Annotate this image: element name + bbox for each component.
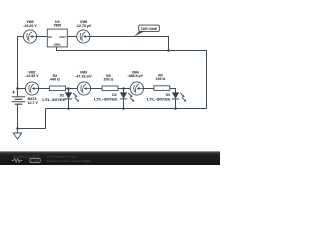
voltmeter VM2 [25,70,39,95]
svg-text:7805: 7805 [53,23,61,27]
voltmeter VM5 [23,20,37,43]
wire D2 risers [68,89,70,109]
annotation ZUR CAM [134,25,159,36]
wire VM5 to U3 IN [37,36,48,38]
wire VM2 to R2 [39,88,50,90]
svg-text:LAB: LAB [31,159,39,163]
node D4 cathode rail junction [174,107,177,110]
wire D4 riser [175,99,177,109]
voltmeter VM6 [76,20,92,43]
wire LED cathode rail [46,108,207,110]
wire U3 GND run right and down right edge [57,47,207,109]
watermark bar [0,151,220,165]
svg-text:440 Ω: 440 Ω [50,78,60,82]
svg-text:-10.20 V: -10.20 V [23,24,37,28]
svg-text:-12.75 µV: -12.75 µV [76,24,92,28]
node battery- / ground junction [16,127,19,130]
svg-text:GND: GND [54,43,62,47]
svg-text:LTL-307EE: LTL-307EE [147,97,171,101]
wire D3 risers [123,89,125,109]
wire rail to ground junction [18,109,46,129]
svg-text:LTL-307EE: LTL-307EE [42,98,66,102]
node R3/D3 junction [122,87,125,90]
svg-text:-12.63 V: -12.63 V [25,74,39,78]
resistor R2 [49,74,65,91]
wire VM6 right then down to GND net [90,37,169,51]
wire VM4 to R4 [143,88,154,90]
svg-text:12.7 V: 12.7 V [28,101,39,105]
node battery+ / VM2 junction [16,87,19,90]
voltmeter VM3 [75,71,92,96]
svg-text:LTL-307EE: LTL-307EE [94,97,118,101]
LED D2 [42,92,79,102]
svg-text:100 Ω: 100 Ω [156,77,166,81]
wire R2 to VM3 [66,88,78,90]
node R2/D2 junction [67,87,70,90]
wire VM3 to R3 [90,88,102,90]
svg-text:http://circuitlab.com/c2s3k395: http://circuitlab.com/c2s3k395 [47,159,91,163]
voltmeter VM4 [127,70,143,95]
svg-text:200 Ω: 200 Ω [104,78,114,82]
svg-text:OUT: OUT [59,35,66,39]
wire battery+ node to VM2 [18,88,26,90]
node VM6/GND net junction [167,49,170,52]
resistor R3 [102,74,118,91]
svg-text:-47.18 mV: -47.18 mV [75,74,92,78]
LED D4 [147,92,186,101]
regulator U3 7805 [47,20,67,47]
node D2 cathode rail junction [67,107,70,110]
wire R3 to VM4 [118,88,130,90]
wire battery bottom down [17,104,19,128]
wire U3 OUT to VM6 [67,36,77,38]
svg-text:-458.9 µV: -458.9 µV [127,74,143,78]
wire R4 to D4 corner [170,89,176,93]
resistor R4 [154,73,170,90]
LED D3 [94,92,134,101]
battery BAT2 [12,91,25,105]
wire left vertical from VM5 to battery [18,37,24,97]
svg-text:ZUR CAM!: ZUR CAM! [141,27,157,31]
node D3 cathode rail junction [122,107,125,110]
ground [13,129,22,140]
